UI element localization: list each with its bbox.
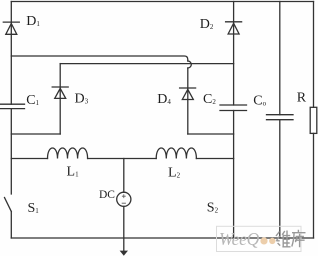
svg-text:D3: D3 bbox=[75, 92, 89, 107]
svg-text:DC: DC bbox=[99, 189, 115, 201]
source DC circle bbox=[117, 192, 131, 206]
capacitor C2 bbox=[220, 105, 247, 111]
wire left rail bbox=[10, 2, 12, 239]
svg-text:S1: S1 bbox=[28, 201, 40, 216]
wire C0 rail bbox=[279, 2, 281, 239]
svg-text:WeeQ: WeeQ bbox=[219, 229, 260, 249]
wire D3 bottom link bbox=[11, 133, 60, 135]
wire line B bbox=[60, 63, 233, 65]
svg-text:R: R bbox=[297, 91, 307, 106]
wire main horizontal bbox=[11, 158, 233, 160]
diode D3 bbox=[52, 87, 68, 98]
watermark bbox=[217, 226, 306, 251]
source DC polarity marks bbox=[122, 194, 126, 203]
svg-text:D2: D2 bbox=[200, 17, 214, 32]
wire D3 rail bbox=[59, 64, 61, 134]
capacitor C1 bbox=[0, 104, 25, 108]
wire D4 bottom link bbox=[188, 133, 234, 135]
inductor L2 bbox=[156, 148, 196, 159]
wire top bus bbox=[11, 1, 313, 3]
wire C2/D2 rail bbox=[233, 2, 235, 239]
svg-text:D4: D4 bbox=[157, 92, 171, 107]
svg-text:D1: D1 bbox=[26, 14, 40, 29]
diode D1 bbox=[3, 22, 19, 34]
svg-text:L2: L2 bbox=[168, 166, 181, 181]
capacitor C0 bbox=[267, 115, 294, 120]
wire R rail bbox=[313, 2, 315, 239]
diode D2 bbox=[226, 22, 242, 34]
wire D4 rail bbox=[187, 68, 189, 134]
inductor L1 bbox=[48, 148, 88, 159]
resistor R bbox=[310, 107, 317, 133]
wire line A with corner into D4 rail bbox=[11, 56, 188, 61]
svg-text:S2: S2 bbox=[207, 201, 219, 216]
svg-text:C2: C2 bbox=[203, 92, 216, 107]
svg-text:C1: C1 bbox=[26, 93, 39, 108]
svg-text:L1: L1 bbox=[67, 165, 80, 180]
wire DC branch bbox=[123, 159, 125, 252]
svg-text:Co: Co bbox=[253, 94, 266, 109]
wire bottom bus bbox=[11, 237, 313, 239]
ground arrow bbox=[120, 251, 128, 256]
wire hop over line B bbox=[188, 61, 192, 68]
switch S1 bbox=[5, 198, 12, 212]
diode D4 bbox=[180, 88, 196, 100]
